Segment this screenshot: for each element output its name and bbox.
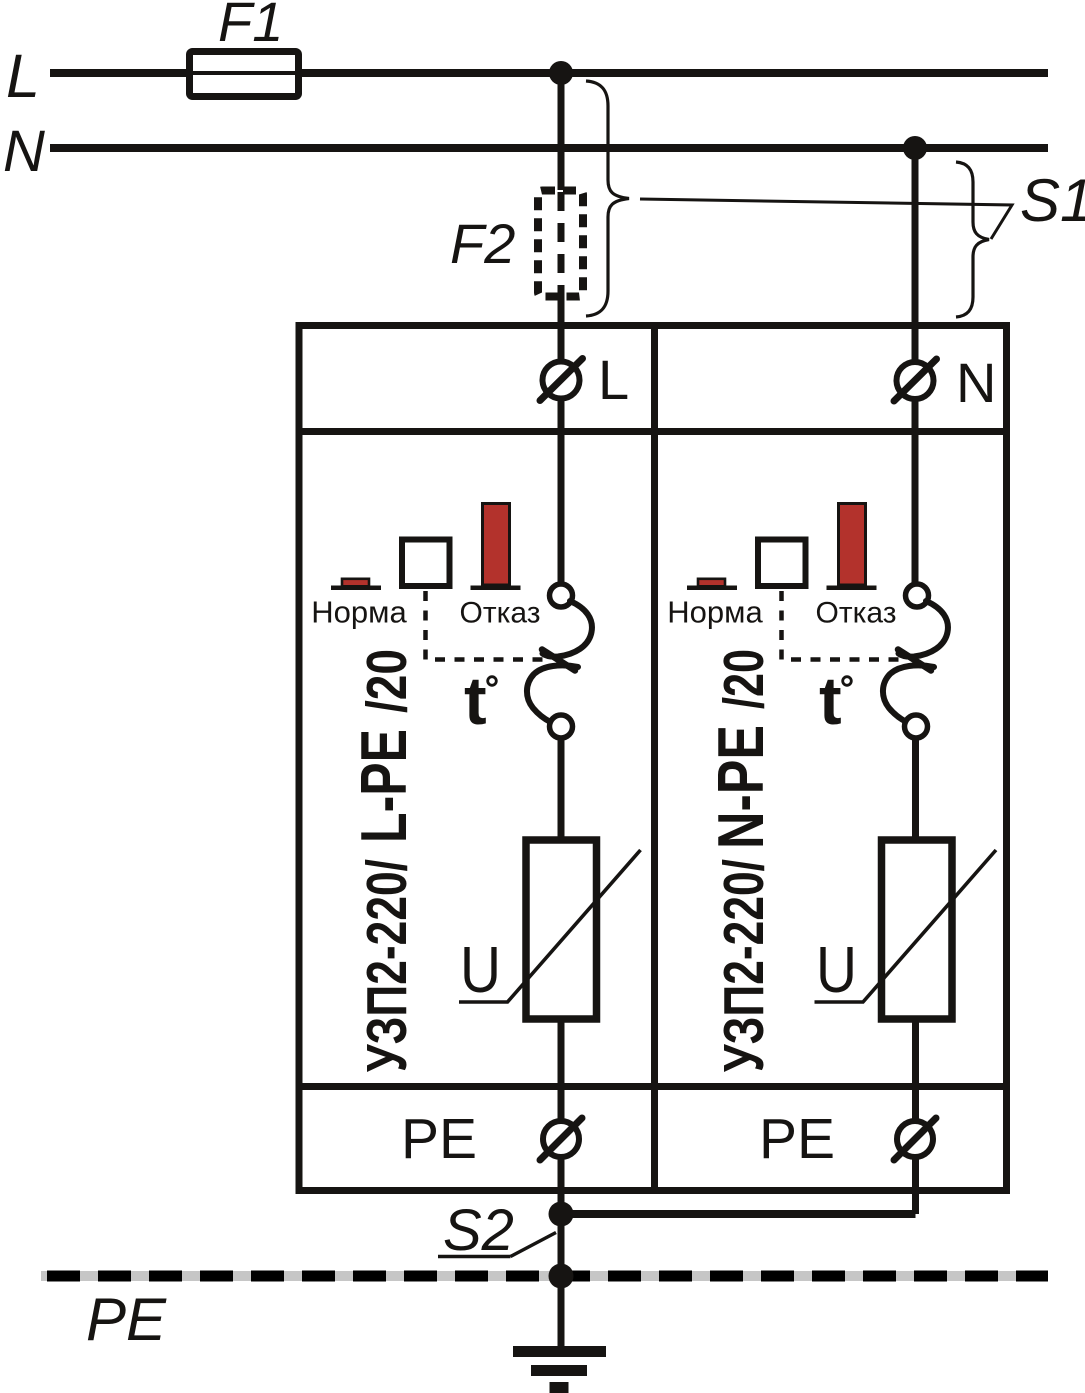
label t-degree N [819,663,851,739]
fuse F1 [190,0,299,97]
svg-text:Отказ: Отказ [816,597,897,630]
wire junction to PE bus [558,1214,565,1276]
indicator window N (white square) [758,540,806,587]
terminal PE module L [401,1107,582,1171]
wire terminal N down [912,399,919,587]
brace for S1 left [586,81,629,316]
svg-text:L-PE: L-PE [347,729,420,843]
svg-text:/20: /20 [355,649,419,713]
device box outline [299,326,1007,1191]
terminal N (circle with slash) [894,351,996,414]
label module N (rotated) [704,649,777,1072]
node junction on L [549,61,573,85]
svg-text:УЗП2-220/: УЗП2-220/ [355,859,419,1072]
wire PE tie bar [561,1210,916,1218]
indicator bar norm L (small red) [342,579,369,587]
svg-text:PE: PE [759,1107,835,1171]
node S2 label [438,1198,556,1263]
varistor U1 module L [459,840,641,1019]
svg-text:U: U [816,933,857,1006]
indicator group module N [667,504,905,660]
svg-text:PE: PE [401,1107,477,1171]
indicator baseline norm L [331,586,381,591]
ground [513,1346,606,1393]
svg-text:S1: S1 [1020,167,1085,234]
wire terminal strip divider [299,428,1007,435]
wire S1 pointer [640,199,1012,239]
wire dashed indicator link L [426,591,550,660]
wire thermal to varistor L [558,738,565,839]
indicator bar fail N (tall red) [839,504,866,586]
indicator baseline fail L [471,586,521,591]
svg-text:t: t [464,663,487,739]
svg-text:N: N [956,351,996,414]
wire from N node down [912,148,919,362]
wire terminal L down [558,398,565,586]
svg-text:F2: F2 [450,212,515,275]
svg-text:Норма: Норма [311,595,407,630]
svg-text:PE: PE [86,1286,167,1353]
wire PE strip divider [299,1083,1007,1090]
indicator bar fail L (tall red) [483,504,510,586]
terminal L (circle with slash) [540,348,629,411]
svg-text:U: U [460,933,501,1006]
wire dashed indicator link N [782,591,906,660]
terminal PE module N [759,1107,936,1171]
svg-text:УЗП2-220/: УЗП2-220/ [712,859,776,1072]
label module L (rotated) [347,649,420,1072]
svg-text:/20: /20 [712,649,776,709]
indicator baseline norm N [687,586,737,591]
wire F2 to box [558,296,565,362]
svg-text:N-PE: N-PE [704,725,777,849]
svg-text:F1: F1 [218,0,283,53]
indicator group module L [311,504,549,660]
indicator baseline fail N [827,586,877,591]
wire L bus [50,69,1048,77]
wire PE bus (grey underlay) [41,1271,1048,1281]
wire PE terminal N down [912,1157,919,1214]
node junction PE bus [549,1264,574,1289]
wire PE terminal L down [558,1157,565,1214]
wire varistor to PE terminal L [558,1017,565,1121]
label t-degree L [464,663,496,739]
svg-text:Норма: Норма [667,595,763,630]
node junction on N [903,136,927,160]
svg-text:t: t [819,663,842,739]
svg-text:L: L [6,42,40,110]
thermal disconnect module N [883,584,948,738]
wire N bus [50,144,1048,152]
wire from L node down [558,73,565,190]
wire thermal to varistor N [912,738,919,839]
fuse F2 (dashed, optional) [450,191,583,299]
svg-text:Отказ: Отказ [460,597,541,630]
node junction PE tie [549,1202,574,1227]
varistor U2 module N [815,840,997,1019]
wire PE bus (dashed) [47,1271,1048,1282]
wire varistor to PE terminal N [912,1017,919,1121]
brace for S1 right [956,162,989,317]
svg-text:L: L [598,348,629,411]
wire module divider [651,322,658,1191]
wire to ground [558,1276,565,1348]
svg-text:S2: S2 [443,1198,514,1263]
svg-text:N: N [3,119,45,184]
thermal disconnect module L [527,584,592,738]
indicator window L (white square) [402,540,450,587]
indicator bar norm N (small red) [698,579,725,587]
